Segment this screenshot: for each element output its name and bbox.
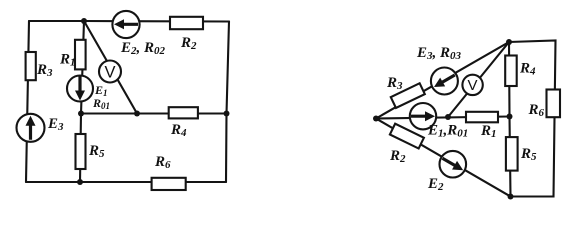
resistor R6 (right) [547, 90, 561, 118]
resistor R6 [152, 178, 186, 190]
svg-text:R2: R2 [180, 35, 197, 52]
arrow inside E2 right circuit (pointing lower-right) [440, 154, 466, 175]
arrow inside E1 (pointing down) [75, 77, 85, 101]
arrow inside E1,R01 right circuit (pointing right) [411, 111, 435, 121]
svg-text:E2: E2 [427, 176, 444, 193]
junction voltmeter tap [445, 114, 451, 120]
wire: right circuit lower diagonal L to B (through R2, E2) [376, 119, 511, 197]
svg-text:R2: R2 [389, 148, 406, 165]
svg-text:R4: R4 [519, 61, 536, 78]
arrow inside E3,R03 (pointing lower-left) [432, 71, 458, 92]
junction node C [134, 111, 140, 117]
svg-text:E1,R01: E1,R01 [427, 123, 468, 140]
svg-text:R6: R6 [528, 102, 545, 119]
wire: voltmeter branch T to middle-wire junction [448, 42, 509, 117]
source E3 (circle with up arrow) [17, 114, 45, 142]
resistor R5 (right) [506, 137, 518, 171]
resistor R4 (right) [505, 56, 517, 87]
svg-text:V: V [468, 77, 478, 94]
svg-text:E3: E3 [47, 116, 64, 133]
wire: right circuit T to M vertical (through R4) [508, 42, 511, 117]
resistor R5 [76, 134, 86, 169]
svg-text:R5: R5 [88, 143, 105, 160]
resistor R1 (right) [466, 112, 498, 123]
junction node B2 [508, 194, 514, 200]
svg-text:R01: R01 [92, 96, 110, 111]
wire: left circuit right edge [226, 22, 229, 183]
svg-text:V: V [105, 64, 116, 82]
wire: right circuit outer loop with R6 [509, 41, 556, 197]
resistor R4 [169, 107, 198, 118]
arrow inside E3 (pointing up) [26, 116, 36, 140]
wire: right circuit M to B vertical (through R5) [510, 117, 511, 197]
svg-text:R1: R1 [480, 123, 497, 140]
resistor R1 [75, 40, 86, 70]
source E2 (circle, arrow to lower-right) [440, 151, 467, 178]
voltmeter V (right circuit) [462, 75, 482, 95]
wire: middle horizontal node B to right edge (through R4) [81, 112, 227, 114]
junction right-middle [224, 111, 230, 117]
source E1,R01 (circle with down arrow) [67, 76, 93, 102]
wire: right circuit upper diagonal L to T (through R3, E3/R03) [376, 42, 509, 119]
junction node M [507, 114, 513, 120]
source E3,R03 (circle, arrow to lower-left) [431, 68, 458, 95]
wire: left circuit left edge (through R3, E3) [26, 21, 29, 182]
resistor R3 (right, tilted) [391, 83, 425, 108]
source E2,R02 (circle with left arrow) [112, 11, 139, 38]
wire: branch node B down through R5 to bottom [80, 114, 81, 183]
svg-text:R5: R5 [520, 146, 537, 163]
voltmeter V (left circuit) [99, 61, 121, 83]
junction node L [373, 116, 379, 122]
svg-text:E2, R02: E2, R02 [120, 40, 166, 57]
wire: left circuit bottom [26, 181, 226, 183]
svg-text:R4: R4 [170, 122, 187, 139]
resistor R2 [170, 17, 203, 29]
wire: diagonal node A to node C (voltmeter in series) [84, 21, 137, 114]
junction node T [506, 39, 512, 45]
svg-text:R3: R3 [386, 75, 403, 92]
wire: right circuit middle L to M (through E1/R01, R1) [376, 117, 510, 119]
junction node B [78, 111, 84, 117]
svg-text:E3, R03: E3, R03 [416, 45, 462, 62]
wire: branch node A down through R1,E1 to node B [81, 21, 84, 114]
svg-text:R3: R3 [36, 62, 53, 79]
junction bottom R5 [77, 179, 83, 185]
svg-text:R1: R1 [59, 52, 76, 69]
wire: left circuit top (corner to node A to top-right corner) [29, 20, 229, 23]
arrow inside E2 (pointing left) [114, 19, 138, 29]
resistor R2 (right, tilted) [390, 124, 424, 149]
source E1,R01 (circle, arrow right) [410, 103, 436, 129]
junction node A [81, 18, 87, 24]
resistor R3 [26, 52, 36, 80]
svg-text:R6: R6 [154, 154, 171, 171]
